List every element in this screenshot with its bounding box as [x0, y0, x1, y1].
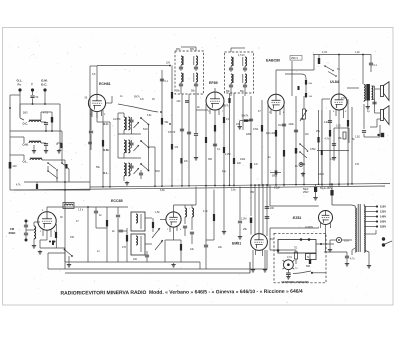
- wire: [295, 96, 297, 184]
- svg-text:O.M.: O.M.: [103, 148, 109, 152]
- svg-text:100k: 100k: [240, 158, 246, 161]
- wire: [244, 89, 246, 96]
- capacitor C4: [89, 130, 93, 132]
- wire: [173, 227, 175, 240]
- wire: [89, 66, 91, 190]
- junction: [64, 181, 66, 183]
- svg-text:160V: 160V: [380, 220, 386, 224]
- capacitor T2 primary: [229, 67, 233, 69]
- capacitor C24: [119, 229, 123, 231]
- wire: [267, 105, 269, 187]
- wire: [9, 95, 11, 190]
- coil L2 O.M. aerial: [29, 142, 41, 144]
- wire: [118, 112, 124, 114]
- ground: [239, 125, 241, 127]
- coil L8: [192, 208, 194, 217]
- svg-text:T: T: [31, 83, 33, 87]
- wire speaker return: [379, 125, 381, 137]
- wire: [205, 104, 207, 187]
- wire: [329, 240, 331, 248]
- wire: [59, 104, 61, 150]
- wire: [223, 104, 225, 187]
- wire: [47, 253, 49, 269]
- wire: [145, 217, 152, 219]
- svg-text:0,02: 0,02: [324, 122, 329, 124]
- wire: [250, 96, 252, 187]
- ground: [368, 264, 370, 266]
- wire: [270, 249, 296, 251]
- phono motor M: [284, 260, 294, 270]
- wire: [375, 88, 381, 90]
- resistor R11b: [233, 158, 235, 164]
- capacitor C17: [369, 62, 373, 64]
- capacitor C15b: [274, 170, 276, 174]
- svg-text:250/-V: 250/-V: [291, 57, 298, 60]
- svg-text:EM81: EM81: [232, 242, 241, 246]
- capacitor C3b electrolytic: [36, 184, 38, 189]
- wire: [117, 218, 119, 262]
- wire: [352, 205, 355, 206]
- wire: [96, 227, 107, 229]
- capacitor C15: [249, 118, 253, 120]
- antenna terminal T: [31, 88, 34, 91]
- wire: [117, 113, 119, 158]
- capacitor C30: [265, 206, 270, 208]
- wire: [20, 103, 33, 105]
- svg-text:1M: 1M: [270, 238, 273, 241]
- svg-text:250V: 250V: [303, 191, 309, 194]
- wire: [10, 189, 90, 191]
- wire: [149, 146, 156, 148]
- svg-text:4,7k: 4,7k: [203, 210, 208, 213]
- wire: [90, 65, 97, 67]
- wire: [20, 118, 24, 120]
- wire: [332, 204, 352, 206]
- svg-text:56/5: 56/5: [23, 113, 28, 115]
- resistor Rdet1: [305, 80, 307, 85]
- option box VERSIONE VERBANO (dashed): [274, 233, 326, 282]
- ground: [252, 268, 254, 270]
- ground: [58, 149, 60, 151]
- svg-text:1,2k: 1,2k: [355, 51, 360, 54]
- wire: [55, 224, 57, 228]
- wire: [46, 230, 48, 240]
- wire: [109, 122, 111, 187]
- resistor R17: [329, 130, 331, 137]
- capacitor C10: [180, 128, 184, 130]
- capacitor C21b: [49, 241, 51, 243]
- wire: [352, 248, 355, 250]
- ground: [367, 105, 369, 107]
- wire: [181, 94, 183, 187]
- resistor R5: [161, 118, 163, 125]
- capacitor T2 c3: [243, 84, 247, 86]
- dropper box: [306, 254, 317, 260]
- resistor R1: [51, 117, 53, 123]
- svg-text:O.L.: O.L.: [23, 160, 28, 164]
- tube pin stub: [343, 108, 345, 118]
- wire: [368, 252, 370, 264]
- svg-text:4,7Ω: 4,7Ω: [322, 51, 327, 54]
- capacitor C28: [204, 244, 208, 246]
- bus wire FM bottom 2: [65, 272, 250, 274]
- coil T1 tert: [196, 56, 198, 65]
- capacitor C29: [238, 220, 242, 222]
- capacitor T2 secondary: [229, 84, 233, 86]
- capacitor C33 56µF 250V: [330, 190, 333, 196]
- coil L3 O.L. aerial: [30, 159, 42, 161]
- capacitor C23: [116, 214, 120, 216]
- antenna terminal O.L.: [18, 88, 21, 91]
- coil T2 quat: [245, 74, 247, 83]
- tuning arrow 1: [152, 228, 160, 238]
- wire: [137, 157, 141, 159]
- wire: [270, 205, 319, 207]
- wire: [364, 250, 369, 252]
- wire: [97, 65, 170, 67]
- ground: [315, 196, 317, 198]
- wire: [230, 89, 232, 96]
- triode ECC85 b: [166, 212, 181, 227]
- wire: [68, 169, 70, 182]
- coil L1 O.C. aerial: [29, 121, 41, 123]
- wire: [33, 103, 46, 105]
- FM aerial filter box: [63, 203, 74, 209]
- wire: [254, 185, 256, 234]
- switch S2a: [141, 118, 148, 124]
- wire: [41, 111, 52, 113]
- wire: [40, 112, 42, 120]
- wire: [315, 192, 317, 196]
- svg-text:7Ω: 7Ω: [294, 247, 297, 250]
- wire: [131, 125, 133, 134]
- bus wire AVC: [90, 184, 390, 188]
- junction: [44, 103, 46, 105]
- wire: [264, 250, 266, 268]
- wire: [102, 109, 104, 187]
- svg-text:1M: 1M: [278, 124, 281, 127]
- svg-text:4,7n: 4,7n: [350, 258, 355, 261]
- switch S1c wafer contact: [62, 163, 69, 169]
- triode-hexode ECH81: [88, 94, 105, 111]
- capacitor Cdet: [298, 86, 300, 90]
- padder C8: [139, 172, 143, 174]
- wire UL84 screen: [318, 110, 320, 184]
- ground: [329, 248, 331, 250]
- wire: [249, 262, 251, 273]
- pentode EF89: [206, 92, 224, 110]
- trimmer arrow 1: [134, 122, 140, 128]
- FM coil box 1: [131, 212, 145, 231]
- capacitor Cx1: [185, 100, 189, 102]
- ground: [33, 244, 35, 246]
- wire: [249, 262, 251, 273]
- svg-text:8/30: 8/30: [155, 170, 160, 173]
- wire: [33, 239, 35, 244]
- junction: [169, 123, 171, 125]
- capacitor C20: [24, 224, 28, 226]
- svg-text:O.C.: O.C.: [23, 122, 29, 126]
- svg-text:1,5k: 1,5k: [155, 211, 160, 214]
- wire: [171, 66, 173, 187]
- pilot lamp: [336, 237, 341, 242]
- wire: [96, 112, 98, 122]
- wire: [65, 261, 200, 263]
- svg-text:150: 150: [70, 236, 75, 239]
- wire: [233, 93, 235, 187]
- svg-text:0,7A: 0,7A: [287, 256, 292, 259]
- loudspeaker LS1: [381, 86, 384, 97]
- wire: [270, 227, 319, 229]
- wire: [223, 187, 225, 231]
- svg-text:ECH81: ECH81: [99, 82, 111, 86]
- wire: [56, 170, 58, 182]
- svg-text:560k: 560k: [272, 176, 278, 178]
- mains terminal A: [382, 237, 385, 240]
- ground: [39, 250, 41, 252]
- coil T1 secondary: [181, 73, 183, 82]
- wire: [266, 250, 268, 269]
- wire: [32, 99, 34, 105]
- capacitor C18: [328, 120, 332, 122]
- capacitor C16: [294, 129, 298, 131]
- svg-text:470k: 470k: [253, 128, 259, 131]
- svg-text:100: 100: [236, 123, 241, 126]
- wire: [324, 251, 347, 253]
- ground: [195, 156, 197, 158]
- bus junction dots: [102, 186, 104, 188]
- triode ECC85 a: [38, 212, 56, 230]
- svg-text:100Ω: 100Ω: [318, 173, 324, 176]
- wire: [56, 143, 58, 145]
- svg-text:250k: 250k: [300, 163, 306, 166]
- capacitor T1 c3: [194, 83, 198, 85]
- svg-text:50Ω: 50Ω: [306, 266, 311, 268]
- resistor R11c: [250, 163, 252, 169]
- resistor R15: [295, 148, 297, 154]
- junction: [362, 54, 364, 56]
- junction: [87, 206, 89, 208]
- wire: [10, 154, 24, 156]
- wire: [199, 262, 201, 269]
- switch S1a wafer contact: [48, 163, 56, 169]
- svg-text:110V: 110V: [380, 205, 386, 209]
- transformer tap 140V: [364, 216, 376, 218]
- wire: [19, 92, 21, 118]
- resistor R6: [171, 92, 173, 99]
- wire: [64, 160, 66, 269]
- resistor R13: [283, 150, 285, 157]
- svg-text:25µ: 25µ: [316, 130, 321, 133]
- wire: [322, 98, 330, 100]
- switch S2b: [141, 141, 148, 147]
- svg-text:220k: 220k: [289, 123, 295, 126]
- wire: [372, 85, 375, 87]
- trimmer arrow 3: [134, 168, 140, 174]
- coil T2 primary: [231, 57, 233, 66]
- svg-text:5/20: 5/20: [143, 128, 148, 131]
- svg-text:ECC85: ECC85: [111, 199, 123, 203]
- switch S1b wafer contact: [48, 171, 56, 177]
- svg-text:470: 470: [355, 163, 360, 166]
- capacitor C3: [44, 143, 48, 145]
- rectifier EZ81: [319, 211, 333, 225]
- wire: [325, 225, 327, 253]
- resistor Rdet2: [305, 93, 307, 97]
- wire: [250, 185, 252, 216]
- wire: [164, 240, 166, 262]
- wire: [321, 99, 323, 187]
- coil T2 secondary: [231, 74, 233, 83]
- wire: [41, 121, 46, 123]
- trimmer C5: [129, 119, 133, 121]
- svg-text:56µF+250V: 56µF+250V: [320, 188, 332, 190]
- wire: [195, 47, 197, 51]
- wire: [303, 96, 305, 109]
- ground: [333, 156, 335, 158]
- wire: [57, 142, 62, 144]
- wire: [117, 207, 119, 214]
- capacitor C14: [282, 123, 286, 125]
- bus wire HT: [14, 186, 385, 190]
- coil L7: [185, 208, 187, 217]
- wire: [19, 110, 21, 118]
- capacitor C26: [183, 225, 187, 227]
- resistor R24: [180, 244, 182, 251]
- wire: [315, 185, 317, 187]
- wire: [10, 94, 20, 96]
- resistor R6c: [180, 158, 182, 164]
- svg-text:47n: 47n: [254, 163, 259, 166]
- resistor R3b: [60, 143, 62, 148]
- svg-text:TA: TA: [337, 68, 340, 71]
- svg-text:2x300V: 2x300V: [305, 226, 314, 229]
- wire panel out: [316, 243, 334, 245]
- wire: [34, 221, 40, 223]
- junction: [45, 130, 47, 132]
- pickup jack Pu: [299, 163, 303, 167]
- svg-text:0,5M: 0,5M: [310, 148, 315, 151]
- wire: [26, 229, 34, 231]
- wire detector feed: [291, 61, 293, 96]
- capacitor T1 secondary: [179, 83, 183, 85]
- capacitor C32 56µF 250V: [314, 187, 317, 193]
- wire: [40, 247, 65, 249]
- svg-text:EF89: EF89: [209, 81, 218, 85]
- svg-text:5,6k: 5,6k: [231, 189, 236, 192]
- wire: [195, 187, 197, 206]
- junction: [9, 107, 11, 109]
- resistor R22: [126, 235, 128, 242]
- wire: [39, 240, 41, 248]
- capacitor C34: [345, 255, 349, 257]
- wire: [19, 104, 21, 110]
- wire: [205, 253, 207, 269]
- svg-text:Modd. « Verbano » 646/5 -: Modd. « Verbano » 646/5 - « Ginevra » 64…: [149, 289, 303, 296]
- wire: [87, 207, 89, 262]
- wire: [261, 100, 263, 187]
- tuning arrow 2: [155, 240, 163, 250]
- FM aerial terminals: [25, 220, 28, 223]
- wire: [351, 250, 353, 255]
- wire: [41, 142, 46, 144]
- capacitor C21: [24, 232, 28, 234]
- wire: [45, 103, 60, 105]
- capacitor C35: [286, 272, 291, 274]
- wire: [123, 113, 125, 117]
- svg-text:90k/7k: 90k/7k: [242, 116, 250, 118]
- wire: [33, 145, 35, 149]
- wire: [118, 133, 137, 135]
- svg-text:140V: 140V: [380, 215, 386, 219]
- wire: [174, 239, 182, 241]
- wire speaker line: [363, 104, 365, 129]
- capacitor C12b: [187, 131, 191, 133]
- svg-text:2,2M: 2,2M: [225, 153, 230, 156]
- wire: [266, 185, 268, 236]
- wire: [375, 112, 381, 114]
- resistor R17c: [321, 150, 323, 155]
- wire: [239, 224, 241, 235]
- wire: [275, 111, 277, 187]
- coil T2 tert: [245, 57, 247, 66]
- wire AF takeoff: [276, 69, 314, 71]
- wire: [88, 206, 128, 208]
- svg-text:1,2M: 1,2M: [241, 218, 246, 221]
- ground: [68, 263, 70, 265]
- wire: [258, 185, 260, 234]
- wire: [295, 250, 297, 252]
- wire: [347, 87, 359, 89]
- junction: [51, 130, 53, 132]
- svg-text:300Ω: 300Ω: [9, 231, 17, 235]
- ground: [45, 149, 47, 151]
- capacitor C25: [145, 254, 149, 256]
- output transformer T3: [364, 85, 365, 101]
- capacitor T1 primary: [179, 66, 183, 68]
- resistor R11e: [244, 119, 249, 121]
- tube pin stub: [335, 109, 337, 116]
- svg-text:1,5Ω: 1,5Ω: [355, 137, 360, 139]
- resistor R11d: [228, 98, 230, 103]
- switch S4 contact: [65, 250, 72, 256]
- svg-text:10V: 10V: [166, 63, 171, 65]
- wire: [154, 147, 156, 187]
- svg-text:O.M.: O.M.: [23, 143, 29, 147]
- svg-text:100: 100: [133, 258, 138, 261]
- transformer tap 125V: [364, 211, 376, 213]
- ground: [287, 275, 289, 277]
- wire: [90, 109, 92, 130]
- wire: [123, 130, 125, 134]
- svg-text:300: 300: [208, 158, 213, 161]
- svg-text:O.L.: O.L.: [103, 171, 109, 175]
- coil T1 primary: [181, 56, 183, 65]
- ground: [223, 230, 225, 232]
- wire: [47, 166, 49, 171]
- resistor R18: [347, 120, 349, 127]
- capacitor T1 c2: [194, 66, 198, 68]
- resistor R10b: [223, 147, 225, 153]
- wire: [338, 55, 340, 94]
- tube pin stubs: [91, 111, 93, 118]
- resistor R26: [250, 218, 252, 224]
- ground: [302, 172, 304, 174]
- potentiometer volume: [303, 109, 306, 119]
- svg-text:47k/70: 47k/70: [168, 131, 176, 134]
- ground: [239, 235, 241, 237]
- capacitor C11c: [194, 133, 198, 135]
